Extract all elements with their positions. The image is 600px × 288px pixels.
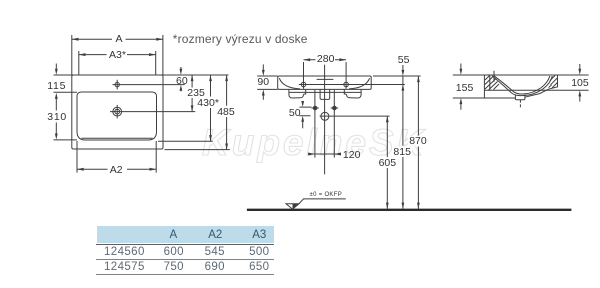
extension line cutout depth right (y141) <box>158 140 213 142</box>
top view drain inner circle <box>115 109 120 114</box>
table rule between rows <box>96 259 274 260</box>
label 90 <box>256 77 270 87</box>
label 115 <box>46 81 67 91</box>
extension line drain height (y116) <box>320 115 390 117</box>
dim 50 arrows <box>302 101 304 103</box>
table row1 A3 500 <box>248 247 270 257</box>
side view shelf line (y90.3) <box>484 89 588 91</box>
side view back and bottom outline <box>484 75 515 98</box>
front view right tap hole <box>344 82 349 87</box>
extension line back edge (y75) <box>54 74 229 76</box>
dim 115 arrows <box>55 64 57 70</box>
side view drain centreline <box>519 100 521 107</box>
table header band <box>97 226 274 243</box>
side view front rim hatching <box>549 76 558 89</box>
front view centre tap hole cross <box>317 65 334 100</box>
dim 155 extension line bottom <box>453 97 485 99</box>
label 430* <box>196 98 220 108</box>
front view left foot <box>289 89 306 98</box>
label 155 <box>455 83 475 93</box>
extension line inner top left (y92.3) <box>54 91 78 93</box>
title note <box>172 33 309 45</box>
top view inner basin rounded rect <box>77 92 157 140</box>
dim 50 extension lines <box>299 107 311 116</box>
dim 280 extension lines <box>304 62 347 89</box>
table row2 A3 650 <box>248 262 270 272</box>
front view drain centreline <box>324 100 326 175</box>
dim 120 line <box>308 153 340 155</box>
front view left tap hole <box>301 82 306 87</box>
front view drain circle <box>321 112 329 120</box>
extension line inner bottom left (y139.8) <box>54 139 78 141</box>
side view front rim outline <box>548 75 557 89</box>
dim 105 arrows <box>579 64 581 70</box>
front view bowl left arc <box>279 78 300 89</box>
table header A <box>169 230 179 240</box>
extension line front edge right (y149.6) <box>165 149 230 151</box>
dim A line <box>72 38 163 40</box>
dim A2 extension lines <box>77 141 156 173</box>
front view right foot <box>344 89 361 98</box>
floor level marker triangle <box>286 204 299 209</box>
watermark KupelneSK <box>202 122 426 164</box>
side view back wall hatching <box>485 76 499 90</box>
dim 605 line <box>386 116 388 209</box>
label 310 <box>46 112 68 122</box>
table row1 A 600 <box>163 247 185 257</box>
side view underside right line <box>525 89 549 97</box>
label 55 <box>397 55 411 65</box>
label 120 <box>342 150 362 160</box>
dim 155 arrows <box>460 64 462 70</box>
front view slab rect <box>278 76 372 89</box>
floor line <box>247 209 572 211</box>
table row2 code 124575 <box>103 262 146 272</box>
extension line tap hole right (y84.6) <box>113 84 185 86</box>
floor level leader line <box>299 199 346 204</box>
label 105 <box>570 78 590 88</box>
label 235 <box>186 88 206 98</box>
top view drain outer circle <box>113 107 122 116</box>
side view top line <box>453 74 589 76</box>
table bottom rule <box>96 274 274 275</box>
label 870 <box>408 136 428 146</box>
top view inner shelf line <box>82 137 153 139</box>
table rule under header <box>96 244 274 245</box>
extension line slab top right (y76) <box>373 75 421 77</box>
label A3* <box>108 50 127 60</box>
bolt hole left <box>313 106 317 110</box>
top view drain vertical tick <box>116 105 118 119</box>
dim A3* line <box>79 54 156 56</box>
side view tap centreline <box>493 71 495 82</box>
table row2 A 750 <box>163 262 185 272</box>
bolt hole right <box>333 106 337 110</box>
dim 90 extension lines <box>257 76 278 89</box>
label A <box>115 34 124 44</box>
dim 120 extension lines from bolt holes <box>315 90 334 158</box>
extension line tap holes (y84.5) <box>299 84 405 86</box>
table row1 A2 545 <box>204 247 226 257</box>
front view drain box <box>320 89 330 99</box>
table row1 code 124560 <box>103 247 146 257</box>
label 60 <box>175 76 189 86</box>
extension line drain right (y111.6) <box>110 111 195 113</box>
dim 235 line <box>191 75 193 112</box>
table row2 A2 690 <box>204 262 226 272</box>
dim 55 arrow <box>402 65 404 71</box>
dim 485 line <box>226 75 228 150</box>
dim 310 line <box>55 98 57 134</box>
dim 280 line <box>304 59 347 61</box>
dim 430* line <box>210 75 212 141</box>
top view outer basin rect <box>72 75 163 149</box>
label A2 <box>109 165 124 175</box>
table header A3 <box>251 230 267 240</box>
label 815 <box>392 147 412 157</box>
top view tap hole <box>115 82 119 86</box>
label 485 <box>216 107 236 117</box>
label 280 <box>316 54 336 64</box>
side view inner back wall line <box>489 76 491 91</box>
front view under-wall line <box>290 91 361 93</box>
side view bowl profile outer curve <box>492 76 552 96</box>
dim 815 line <box>402 76 404 209</box>
label floor level <box>309 192 344 198</box>
front view bowl right arc <box>349 78 370 89</box>
table header A2 <box>207 230 223 240</box>
dim A2 line <box>77 168 156 170</box>
side view drain box <box>515 94 525 99</box>
label 50 <box>288 108 302 118</box>
label 605 <box>378 158 398 168</box>
dim 870 line <box>417 76 419 209</box>
side view bowl profile inner curve <box>494 76 550 94</box>
dim 90 arrows <box>262 64 264 70</box>
dim 60 arrows <box>180 67 182 70</box>
